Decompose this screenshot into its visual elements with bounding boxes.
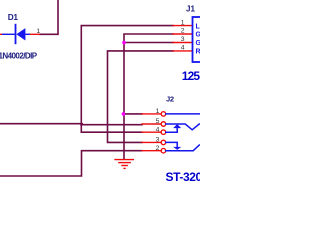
svg-text:1: 1 (156, 108, 160, 115)
svg-text:L: L (196, 23, 201, 30)
svg-text:3: 3 (181, 36, 185, 43)
svg-text:2: 2 (156, 145, 160, 152)
svg-text:D1: D1 (8, 12, 19, 22)
svg-text:5: 5 (156, 118, 160, 125)
svg-text:J1: J1 (186, 5, 195, 14)
svg-text:1: 1 (181, 19, 185, 26)
svg-text:ST-320: ST-320 (166, 170, 201, 184)
svg-text:125: 125 (182, 69, 200, 83)
svg-text:1: 1 (36, 28, 40, 35)
svg-text:R: R (196, 49, 201, 56)
svg-text:4: 4 (181, 45, 185, 52)
svg-text:3: 3 (156, 137, 160, 144)
svg-text:G: G (196, 32, 201, 39)
svg-text:G: G (196, 40, 201, 47)
svg-text:4: 4 (156, 126, 160, 133)
svg-text:2: 2 (181, 28, 185, 35)
svg-text:1N4002/DIP: 1N4002/DIP (0, 52, 38, 61)
svg-text:J2: J2 (166, 95, 174, 104)
